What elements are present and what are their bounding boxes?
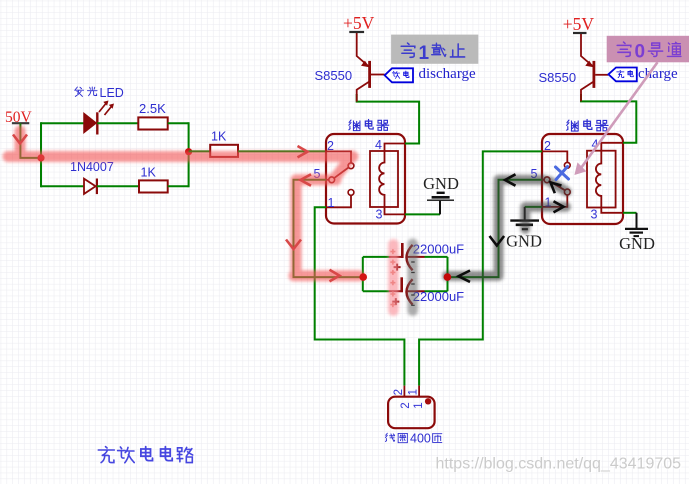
black marker arrow down — [490, 236, 505, 246]
minus charge marks — [411, 262, 415, 305]
svg-text:22000uF: 22000uF — [413, 242, 464, 257]
pink plate bar annotation — [388, 244, 399, 310]
svg-text:1K: 1K — [211, 130, 227, 144]
label 发光LED — [75, 86, 124, 100]
power port +5V Q1 — [343, 13, 375, 33]
wire LED cathode to R 2.5K — [97, 122, 138, 124]
black marker arrow left at K2 pin5 — [505, 174, 516, 185]
watermark — [436, 455, 683, 473]
svg-text:1K: 1K — [141, 166, 157, 180]
wire right branch vertical — [188, 122, 190, 187]
wire to K2 pin2 from coil riser — [419, 151, 542, 385]
svg-text:3: 3 — [376, 208, 383, 222]
K2 pin5 contact circle — [544, 177, 550, 183]
K2 pin4 stub — [601, 143, 623, 151]
coil L1 stubs — [404, 386, 419, 397]
svg-text:1: 1 — [407, 389, 419, 395]
K1 pin2 contact circle — [348, 163, 354, 169]
label 线圈400匝 — [385, 432, 441, 446]
relay K2 body — [542, 134, 623, 224]
callout 写1截止 — [391, 35, 478, 64]
K2 coil rect — [587, 151, 616, 208]
K1 pin3 stub — [385, 207, 406, 214]
port 充电 — [608, 68, 636, 82]
svg-text:2.5K: 2.5K — [139, 101, 166, 116]
svg-text:2: 2 — [393, 389, 405, 395]
K2 switch arm — [550, 181, 565, 190]
wire 50V feed down and right to node A — [20, 123, 41, 158]
wire 2.5K to right vertical — [168, 122, 189, 124]
K2 coil arcs — [596, 151, 601, 208]
ground GND1 — [423, 174, 459, 215]
capacitor C1 right wire — [407, 256, 448, 258]
node B junction dot — [185, 148, 192, 155]
wire K1 pin3 to GND1 — [405, 213, 440, 215]
port 放电 — [385, 68, 413, 82]
LED D1 — [84, 101, 114, 135]
svg-text:4: 4 — [375, 138, 382, 152]
wire diode cathode to R 1K lower — [97, 185, 139, 187]
K2 pin1 stub — [542, 195, 567, 207]
svg-text:GND: GND — [506, 232, 542, 251]
junction dot cap right — [444, 273, 452, 281]
black marker arrow left to cap node — [459, 271, 471, 282]
wire LED anode — [41, 122, 84, 124]
K2 pin3 stub — [601, 208, 623, 213]
K1 pin1 stub — [326, 195, 351, 207]
K1 pin5 stub — [326, 179, 329, 181]
resistor 2.5K — [138, 117, 167, 129]
capacitor C1 left wire — [363, 256, 401, 258]
relay K1 body — [326, 134, 405, 224]
black marker discharge path — [447, 180, 567, 276]
power port +5V Q2 — [563, 14, 595, 34]
svg-text:2: 2 — [544, 139, 551, 153]
svg-text:2: 2 — [327, 139, 334, 153]
red marker arrow down to caps — [286, 240, 301, 250]
svg-text:S8550: S8550 — [315, 68, 353, 83]
svg-text:50V: 50V — [5, 109, 33, 126]
wire K1 pin4 to Q1 collector — [357, 94, 419, 144]
K2 pin1 contact circle — [564, 189, 570, 195]
K1 coil rect — [370, 151, 398, 207]
capacitor C2 left wire — [363, 290, 401, 292]
wire K1 pin5 to cap node (under red marker) — [294, 180, 363, 277]
wire left branch vertical — [40, 122, 42, 187]
wire 1K lower to right vertical — [168, 185, 189, 187]
svg-text:0: 0 — [635, 42, 646, 63]
capacitor C1 — [394, 243, 413, 271]
label 继电器 K2 — [567, 120, 608, 131]
junction dot cap left — [359, 273, 367, 281]
svg-text:1: 1 — [419, 43, 430, 64]
black marker arrow up arm — [551, 183, 562, 194]
K1 pin2 stub — [326, 151, 351, 163]
wire K1 pin1 down to coil — [315, 207, 405, 385]
wire diode anode — [41, 185, 84, 187]
svg-text:1: 1 — [413, 402, 425, 408]
K2 pin2 contact circle — [564, 162, 570, 168]
wire K2 pin5 to cap node (under black marker) — [448, 180, 543, 277]
wire K2 pin1 to GND2 — [525, 206, 542, 208]
blue X open contact — [556, 167, 569, 180]
red marker arrow right before K1 pin2 — [298, 146, 308, 157]
red marker charge path — [8, 131, 359, 276]
plus charge marks — [390, 249, 395, 307]
svg-text:22000uF: 22000uF — [413, 289, 464, 304]
red marker arrow right to cap node — [330, 270, 340, 282]
wire 1K main to relay K1 pin2 — [238, 150, 326, 152]
node A junction dot — [37, 154, 44, 161]
svg-text:S8550: S8550 — [539, 70, 577, 85]
gray plate bar annotation — [407, 244, 418, 311]
svg-text:2: 2 — [400, 402, 412, 408]
svg-text:GND: GND — [423, 174, 459, 193]
svg-text:1: 1 — [328, 196, 335, 210]
red marker arrow down at 50V — [13, 135, 27, 144]
resistor 1K lower — [139, 180, 168, 192]
K2 pin5 stub — [542, 179, 544, 181]
svg-text:LED: LED — [100, 86, 124, 100]
transistor Q1 S8550 — [357, 33, 385, 102]
coil L1 polarity dot — [425, 398, 431, 404]
K1 pin4 stub — [385, 144, 406, 152]
ground GND2 — [506, 207, 542, 251]
svg-text:GND: GND — [619, 234, 655, 253]
wire K2 pin3 to GND3 — [623, 212, 637, 214]
K1 coil arcs — [379, 151, 384, 207]
black marker arrow right to K2 pin1 — [554, 201, 564, 212]
ground GND3 — [619, 213, 655, 253]
callout 写0导通 — [607, 36, 689, 63]
svg-text:discharge: discharge — [419, 66, 477, 82]
svg-text:3: 3 — [591, 207, 598, 221]
diode 1N4007 — [84, 179, 97, 195]
label 继电器 K1 — [349, 120, 389, 131]
title 充放电电路 — [98, 447, 192, 463]
K2 pin2 stub — [542, 151, 567, 162]
resistor 1K main — [210, 145, 238, 157]
power port 50V bar — [12, 122, 29, 124]
transistor Q2 S8550 — [581, 34, 608, 101]
K1 pin1 contact circle — [348, 190, 354, 196]
wire node B to R 1K main — [189, 150, 211, 152]
pink pointer line from 写0导通 — [576, 62, 658, 174]
coil L1 body 线圈 — [388, 397, 435, 429]
svg-text:+5V: +5V — [563, 14, 595, 34]
wire cap right bracket — [447, 257, 449, 291]
K1 pin5 contact circle — [329, 177, 335, 183]
svg-text:https://blog.csdn.net/qq_43419: https://blog.csdn.net/qq_43419705 — [436, 455, 682, 472]
wire K2 pin4 to Q2 collector — [581, 94, 636, 143]
wire cap left bracket — [362, 257, 364, 291]
capacitor C2 right wire — [407, 290, 448, 292]
svg-text:400: 400 — [410, 432, 431, 446]
K1 switch arm — [334, 167, 349, 178]
svg-text:+5V: +5V — [343, 13, 375, 33]
capacitor C2 — [392, 277, 412, 305]
red marker arrow left at K1 pin5 — [301, 174, 312, 185]
